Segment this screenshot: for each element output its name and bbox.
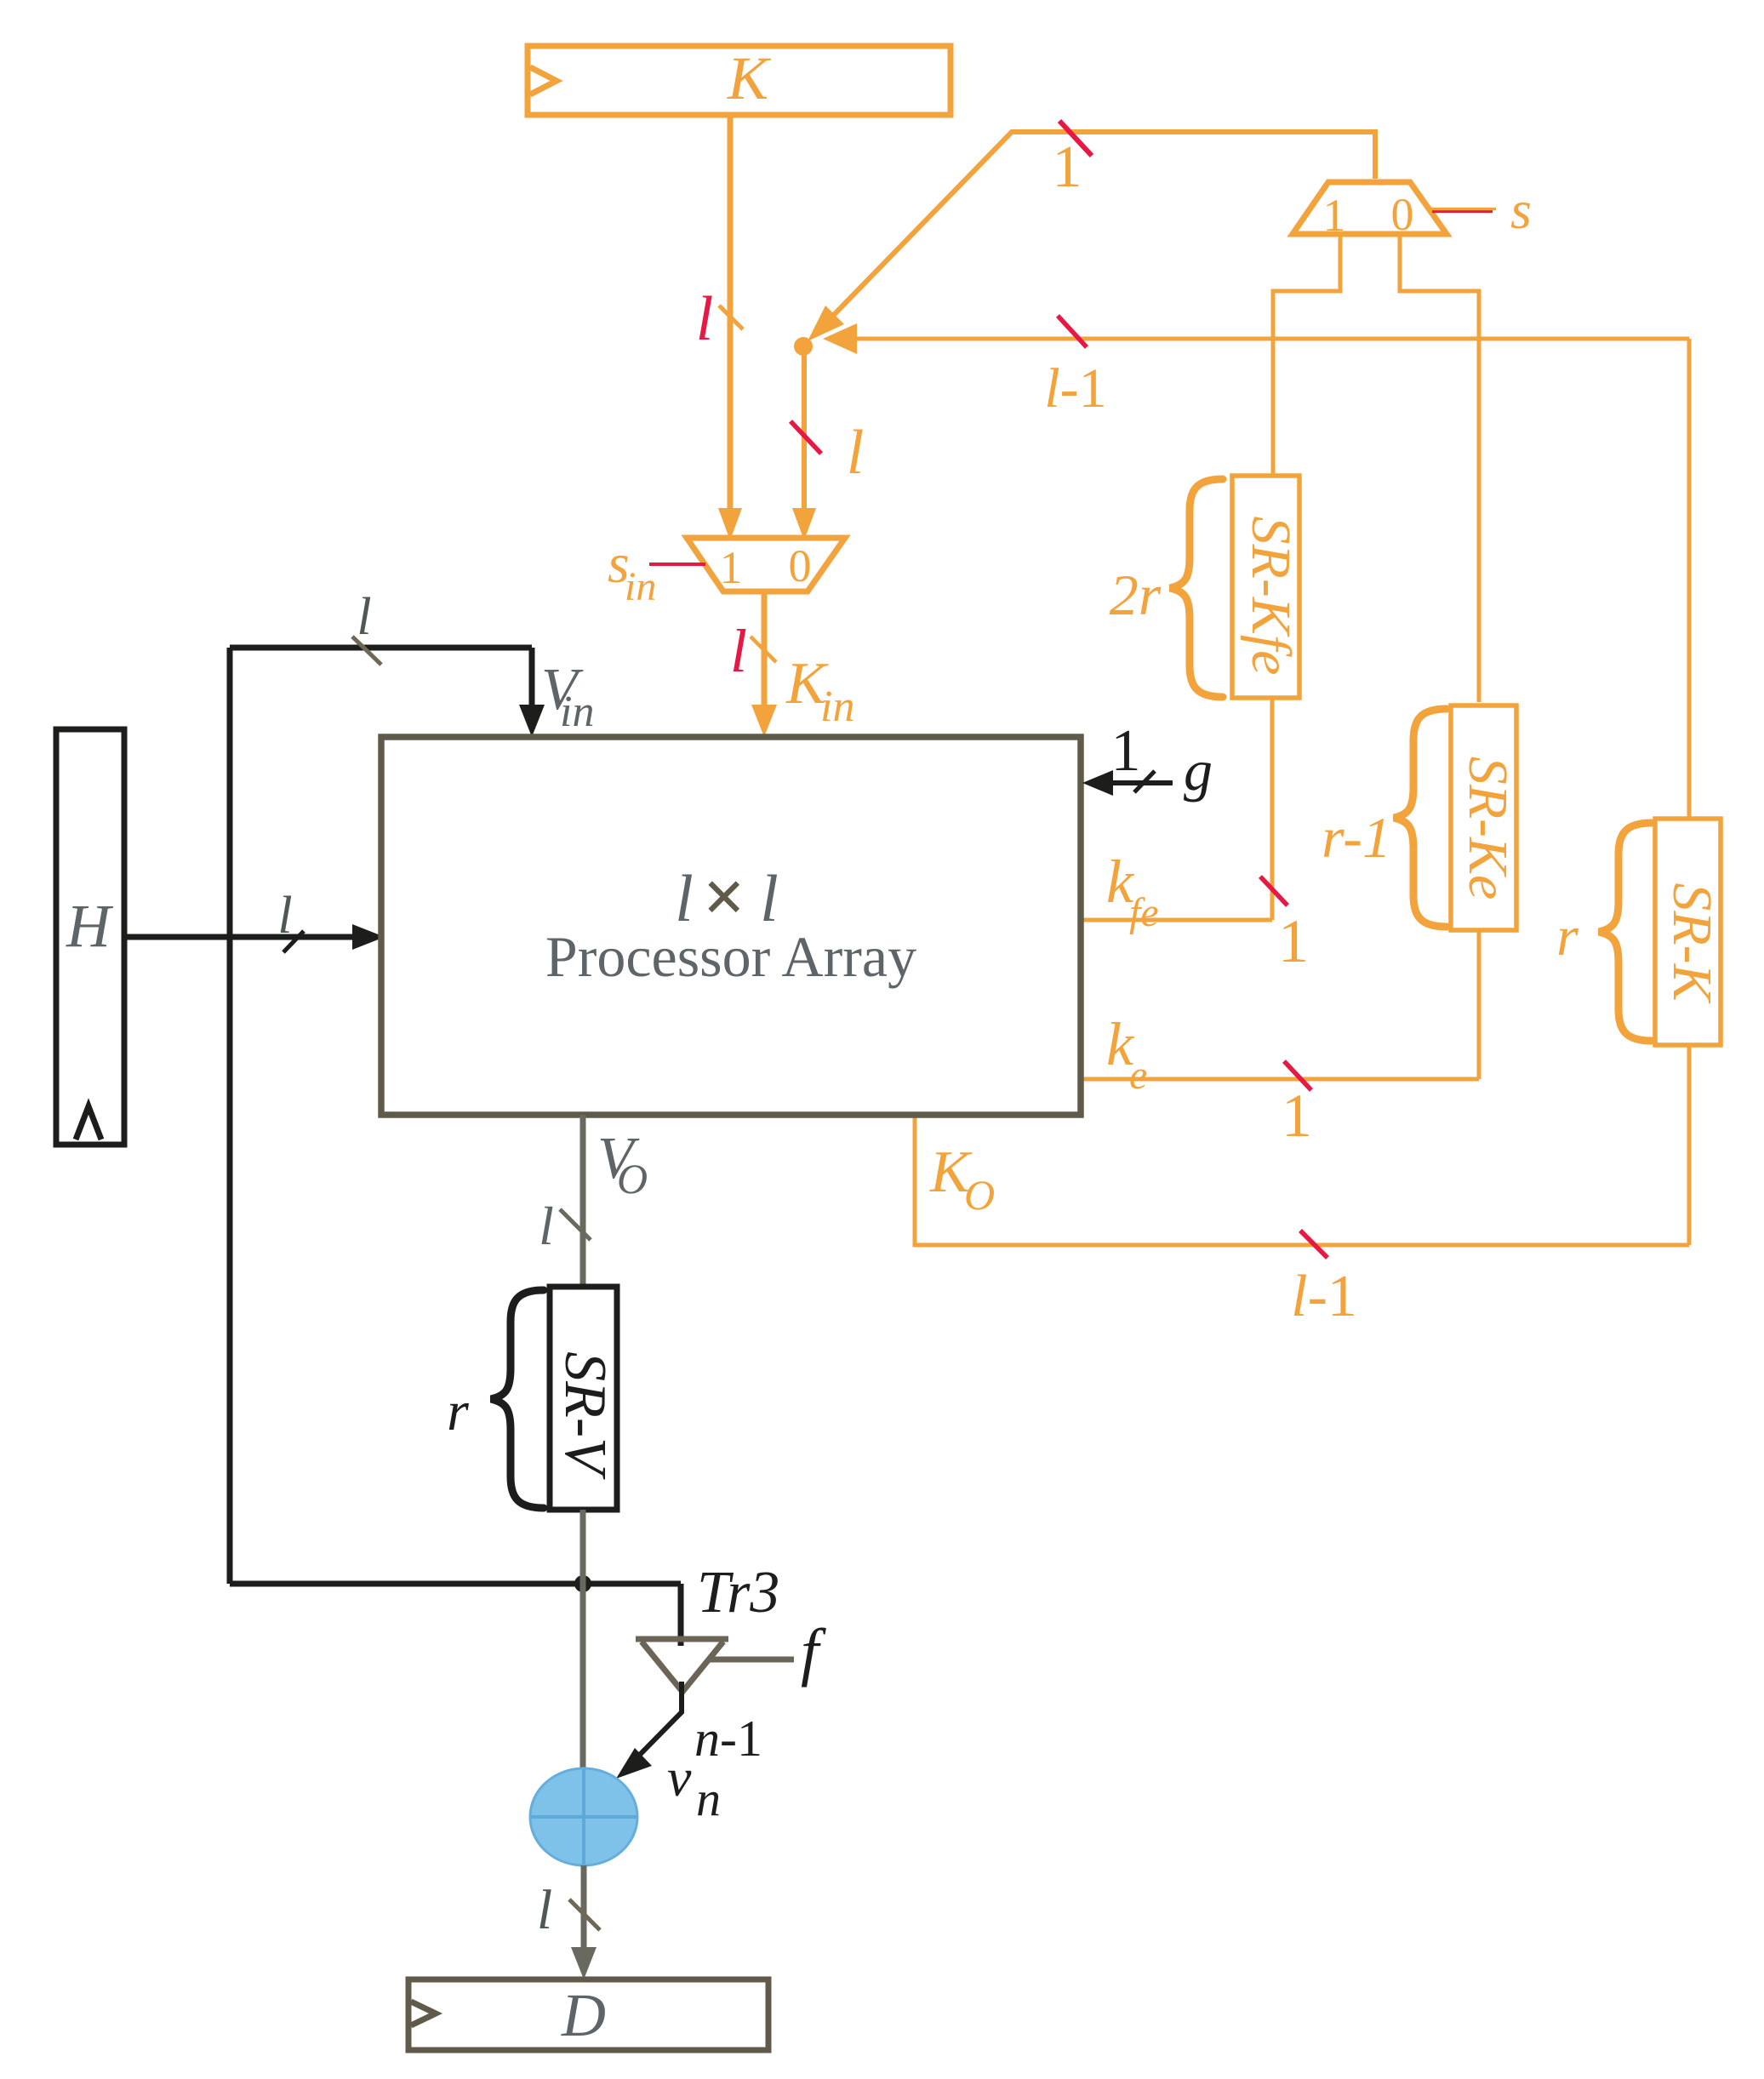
wire bottom horizontal to Tr3: [230, 1581, 681, 1587]
wire SR-K bottom down: [1687, 1045, 1692, 1245]
brace for SR-V: [491, 1290, 544, 1508]
svg-text:1: 1: [1053, 134, 1082, 200]
arrowhead l-1 into junction: [823, 323, 857, 354]
wire below SR-Ke: [1477, 930, 1481, 1079]
red slash on k_e wire: [1284, 1061, 1311, 1090]
svg-text:l-1: l-1: [1044, 357, 1106, 420]
node junction dot on V line: [574, 1575, 591, 1592]
processor array box: [381, 737, 1081, 1115]
red slash on mux output line: [1059, 121, 1092, 156]
arrowhead V_in into processor array: [519, 705, 545, 737]
svg-text:l: l: [539, 1196, 554, 1256]
svg-text:in: in: [560, 688, 594, 736]
wire Tr3 output diagonal arrow: [627, 1682, 682, 1768]
wire xor output down: [581, 1865, 587, 1959]
svg-text:l: l: [537, 1879, 552, 1941]
svg-text:1: 1: [1282, 1082, 1312, 1150]
svg-text:e: e: [1129, 1053, 1147, 1098]
wire g input: [1106, 780, 1173, 785]
svg-text:1: 1: [1111, 718, 1141, 784]
black slash on H wire: [283, 931, 304, 952]
brace for SR-K: [1599, 823, 1652, 1041]
svg-text:K: K: [727, 44, 772, 112]
olive slash on output wire: [569, 1899, 600, 1930]
xor gate circle: [530, 1768, 637, 1865]
svg-text:fe: fe: [1129, 890, 1159, 935]
black slash on g wire: [1134, 771, 1155, 792]
arrowhead K into mux input 1: [718, 508, 742, 540]
red slash on K_O line: [1300, 1231, 1327, 1258]
svg-text:O: O: [617, 1155, 648, 1202]
register K: [528, 44, 951, 115]
wire k_fe horizontal: [1081, 918, 1272, 922]
svg-text:in: in: [625, 564, 656, 609]
svg-text:l: l: [847, 418, 865, 488]
wire k_e horizontal: [1081, 1077, 1479, 1082]
svg-text:r: r: [1556, 905, 1578, 968]
arrowhead diagonal into junction: [808, 306, 844, 341]
red slash on junction down wire: [791, 421, 821, 454]
svg-text:in: in: [820, 683, 854, 731]
svg-text:1: 1: [1278, 907, 1309, 975]
shift register SR-Ke: [1451, 705, 1519, 930]
svg-text:v: v: [667, 1747, 692, 1808]
wire K_in output of mux M2: [762, 591, 768, 715]
register H: [56, 729, 124, 1145]
tri-state buffer Tr3: [636, 1560, 779, 1692]
arrowhead into register D: [571, 1947, 597, 1979]
brace for SR-Ke: [1394, 709, 1447, 927]
red slash on k_fe wire: [1260, 877, 1287, 905]
register D: [408, 1979, 768, 2050]
svg-text:2r: 2r: [1110, 563, 1162, 627]
gray slash on V_O wire: [560, 1209, 591, 1240]
olive slash on top l bus: [352, 637, 381, 665]
wire top l bus (black): [230, 645, 532, 651]
svg-text:Tr3: Tr3: [697, 1560, 779, 1625]
wire f input: [710, 1657, 794, 1663]
wire select s_in (red): [649, 563, 705, 566]
wire K_O path: [915, 1115, 1689, 1245]
svg-text:r-1: r-1: [1322, 805, 1391, 870]
wire diagonal from top mux output to junction: [830, 132, 1375, 319]
brace for SR-Kfe: [1170, 479, 1223, 697]
svg-text:Processor Array: Processor Array: [545, 924, 916, 989]
svg-text:SR-K: SR-K: [1661, 882, 1723, 1003]
svg-text:g: g: [1184, 738, 1213, 802]
orange slash on K_in wire: [751, 637, 776, 662]
mux M2 (lower, select s_in): [687, 538, 845, 593]
wire V_O from processor array: [580, 1115, 586, 1287]
arrowhead junction wire into mux: [792, 508, 816, 540]
svg-text:l: l: [277, 887, 292, 945]
svg-text:l-1: l-1: [1291, 1264, 1357, 1329]
red slash on l-1 line: [1058, 316, 1087, 347]
arrowhead g into processor array: [1082, 770, 1113, 796]
wire l-1 horizontal from SR-K top: [857, 337, 1689, 341]
wire V_in corner down: [529, 648, 535, 715]
svg-text:l: l: [696, 284, 714, 354]
svg-text:s: s: [1510, 180, 1532, 240]
svg-text:1: 1: [1323, 190, 1346, 241]
arrowhead v_n into xor: [616, 1748, 652, 1779]
node junction dot: [794, 337, 813, 356]
svg-text:D: D: [561, 1981, 606, 2049]
wire mux M1 input 1 from SR-Kfe: [1273, 234, 1340, 476]
shift register SR-V: [550, 1287, 618, 1510]
wire select s (orange over red): [1426, 208, 1496, 210]
svg-text:l: l: [357, 588, 371, 646]
svg-text:SR-V: SR-V: [552, 1351, 618, 1480]
wire K output vertical: [728, 117, 734, 511]
svg-text:SR-Ke: SR-Ke: [1457, 757, 1519, 900]
svg-text:O: O: [964, 1171, 995, 1219]
wire mux M1 input 0 from SR-Ke: [1400, 234, 1479, 702]
svg-text:1: 1: [720, 542, 743, 593]
wire corner down into Tr3: [678, 1584, 684, 1646]
wire junction down to mux input 0: [802, 349, 807, 511]
wire SR-K top up to l-1 line: [1687, 339, 1692, 819]
arrowhead K_in into processor array: [751, 705, 777, 737]
shift register SR-Kfe: [1232, 476, 1302, 698]
svg-text:n-1: n-1: [694, 1711, 762, 1767]
svg-text:n: n: [696, 1771, 721, 1826]
svg-text:r: r: [447, 1380, 469, 1442]
svg-text:H: H: [66, 892, 114, 960]
wire below SR-V to xor: [580, 1510, 586, 1770]
mux M1 (top, select s): [1293, 182, 1447, 241]
wire below SR-Kfe: [1270, 698, 1275, 920]
svg-text:0: 0: [1391, 189, 1414, 240]
bus slash on K wire (orange): [719, 306, 743, 329]
svg-text:l: l: [730, 617, 747, 685]
svg-text:0: 0: [789, 540, 812, 591]
wire H output: [124, 934, 363, 940]
arrowhead H into processor array: [352, 924, 385, 950]
svg-text:SR-Kfe: SR-Kfe: [1240, 517, 1302, 676]
shift register SR-K: [1655, 819, 1723, 1045]
wire left vertical (black feedback): [227, 648, 233, 1584]
